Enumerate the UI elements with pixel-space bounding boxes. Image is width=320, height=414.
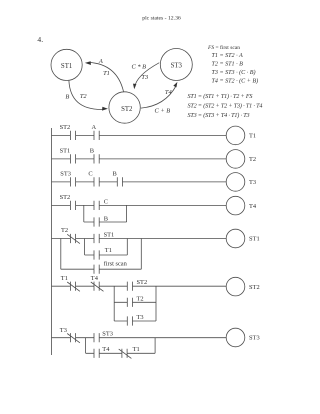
- state ST1: [51, 49, 82, 80]
- svg-text:T2: T2: [80, 93, 88, 100]
- contact T3 (rung 6 branch): [127, 316, 132, 325]
- svg-text:ST2: ST2: [60, 124, 71, 131]
- ladder labels: [60, 124, 260, 353]
- contact B (rung 2): [94, 154, 99, 163]
- svg-text:ST2: ST2: [121, 106, 133, 113]
- rung 7 branch verticals: [86, 338, 156, 354]
- transition arrow T3 (ST3 to ST2): [135, 63, 160, 88]
- svg-text:C * B: C * B: [132, 63, 147, 70]
- svg-text:ST3: ST3: [171, 63, 183, 70]
- svg-text:A: A: [92, 124, 97, 131]
- coil T2: [226, 150, 245, 169]
- rung 4 wire: [52, 204, 227, 206]
- state ST3: [160, 49, 192, 81]
- svg-text:first scan: first scan: [104, 261, 128, 268]
- svg-text:A: A: [98, 58, 103, 65]
- svg-text:T2 = ST1 · B: T2 = ST1 · B: [212, 62, 244, 68]
- svg-text:ST2 = (ST2 + T2 + T3) · T1 · T: ST2 = (ST2 + T2 + T3) · T1 · T4: [188, 103, 263, 110]
- contact B (rung 4 branch): [94, 217, 99, 226]
- svg-text:T2: T2: [137, 296, 144, 303]
- NC contact T1 (rung 7 branch): [119, 349, 132, 359]
- contact ST2 (rung 1): [70, 131, 75, 140]
- coil T1: [226, 126, 245, 145]
- svg-text:T4 = ST2 · (C + B): T4 = ST2 · (C + B): [212, 77, 259, 84]
- svg-text:ST1: ST1: [249, 236, 260, 243]
- svg-text:FS = first scan: FS = first scan: [207, 44, 240, 51]
- left power rail: [51, 128, 53, 355]
- svg-text:ST3 = (ST3 + T4 · T1) · T3: ST3 = (ST3 + T4 · T1) · T3: [188, 112, 250, 119]
- NC contact T3 (rung 7): [67, 333, 80, 343]
- svg-text:T3 = ST3 · (C · B): T3 = ST3 · (C · B): [212, 69, 256, 76]
- rung 5 wire: [52, 238, 227, 240]
- svg-text:ST1: ST1: [61, 63, 72, 70]
- rung 6 T3 branch wire: [114, 320, 156, 322]
- rung 3 wire: [52, 181, 227, 183]
- contact ST3 (rung 3): [70, 177, 75, 186]
- svg-text:C: C: [88, 171, 92, 178]
- coil ST1: [226, 229, 245, 248]
- svg-text:C: C: [104, 199, 108, 206]
- svg-text:T4: T4: [165, 89, 173, 96]
- svg-text:T2: T2: [249, 156, 256, 163]
- coil T3: [226, 173, 245, 192]
- contact ST1 (rung 2): [70, 154, 75, 163]
- svg-text:ST1 = (ST1 + T1) · T2 + FS: ST1 = (ST1 + T1) · T2 + FS: [188, 93, 253, 100]
- arrowhead T3: [133, 84, 136, 90]
- svg-text:ST3: ST3: [60, 171, 71, 178]
- rung 5 T1 branch wire: [85, 254, 128, 256]
- svg-text:T3: T3: [137, 314, 144, 321]
- svg-text:B: B: [65, 93, 69, 100]
- arrowhead T2: [102, 107, 108, 111]
- contact T4 (rung 7 branch): [94, 349, 99, 358]
- svg-text:B: B: [113, 171, 117, 178]
- svg-text:T1 = ST2 · A: T1 = ST2 · A: [212, 53, 244, 59]
- contact ST2 (rung 4): [70, 201, 75, 210]
- contact T1 (rung 5 branch): [94, 250, 99, 259]
- svg-text:ST3: ST3: [249, 335, 260, 342]
- svg-text:plc states - 12.36: plc states - 12.36: [142, 16, 181, 22]
- svg-text:ST1: ST1: [104, 232, 115, 239]
- svg-text:ST3: ST3: [102, 330, 113, 337]
- svg-text:T4: T4: [91, 275, 99, 282]
- NC contact T1 (rung 6): [67, 282, 80, 292]
- contact T2 (rung 6 branch): [127, 298, 132, 307]
- svg-text:T3: T3: [60, 327, 67, 334]
- svg-text:ST2: ST2: [249, 284, 260, 291]
- svg-text:T1: T1: [105, 247, 112, 254]
- coil ST3: [226, 328, 245, 347]
- svg-text:4.: 4.: [37, 35, 43, 44]
- rung 2 wire: [52, 158, 227, 160]
- arrowhead T1: [85, 61, 91, 65]
- svg-text:T4: T4: [249, 203, 257, 210]
- svg-text:ST2: ST2: [60, 194, 71, 201]
- rung 5 first-scan branch wire: [61, 268, 142, 270]
- rung 6 branch verticals: [114, 286, 156, 321]
- rung 4 branch verticals: [84, 205, 127, 222]
- svg-text:T4: T4: [102, 346, 110, 353]
- arrowhead T4: [173, 82, 177, 88]
- svg-text:B: B: [90, 148, 94, 155]
- svg-text:T1: T1: [61, 275, 68, 282]
- rung 6 wire: [52, 285, 227, 287]
- rung 6 T2 branch wire: [114, 301, 156, 303]
- transition arrow T1 (ST2 to ST1): [89, 62, 124, 91]
- transition arrow T4 (ST2 to ST3): [141, 86, 176, 109]
- svg-text:T2: T2: [61, 227, 68, 234]
- contact C (rung 4): [94, 201, 99, 210]
- rung 4 branch wire: [84, 221, 127, 223]
- state ST2: [109, 92, 140, 123]
- NC contact T4 (rung 6): [91, 282, 104, 292]
- contact B (rung 3): [117, 177, 122, 186]
- svg-text:ST2: ST2: [137, 279, 148, 286]
- contact C (rung 3): [94, 177, 99, 186]
- rung 1 wire: [52, 134, 227, 136]
- svg-text:T1: T1: [103, 70, 110, 77]
- contact ST2 (rung 6): [127, 282, 132, 291]
- rung 5 first-scan branch verticals: [61, 239, 142, 270]
- rung 5 T1-branch verticals: [85, 239, 128, 256]
- coil ST2: [226, 277, 245, 296]
- transition arrow T2 (ST1 to ST2): [69, 81, 103, 110]
- contact ST1 (rung 5): [94, 234, 99, 243]
- svg-text:B: B: [104, 215, 108, 222]
- svg-text:T1: T1: [249, 133, 256, 140]
- rung 7 branch wire: [86, 352, 156, 354]
- rung 7 wire: [52, 337, 227, 339]
- svg-text:T3: T3: [141, 74, 148, 81]
- NC contact T2 (rung 5): [67, 234, 80, 244]
- svg-text:T1: T1: [133, 346, 140, 353]
- contact first scan (rung 5 branch): [94, 265, 99, 274]
- svg-text:T3: T3: [249, 179, 256, 186]
- svg-text:C + B: C + B: [154, 107, 170, 114]
- contact A (rung 1): [94, 131, 99, 140]
- coil T4: [226, 196, 245, 215]
- svg-text:ST1: ST1: [60, 148, 71, 155]
- contact ST3 (rung 7): [94, 333, 99, 342]
